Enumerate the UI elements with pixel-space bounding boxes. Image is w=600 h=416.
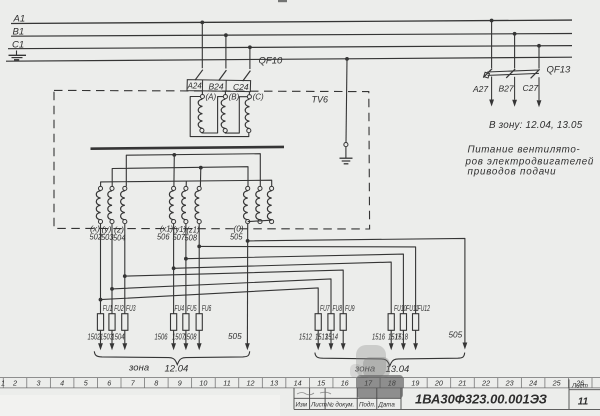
arrow 505 right out <box>463 343 468 350</box>
wire net 505 branch to 13.04 <box>248 238 465 343</box>
svg-text:А27: А27 <box>472 84 488 94</box>
node neutral terminal <box>344 143 348 147</box>
svg-text:Изм: Изм <box>296 401 308 408</box>
secondary winding y <box>108 186 114 223</box>
wire QF10 A to primary <box>201 91 203 94</box>
svg-text:QF10: QF10 <box>259 56 283 67</box>
svg-text:1518: 1518 <box>395 332 408 341</box>
svg-text:Лист: Лист <box>310 401 327 408</box>
svg-text:зона: зона <box>128 363 149 374</box>
wire rail2 tap to (z1) <box>199 166 203 187</box>
svg-text:1516: 1516 <box>372 332 385 341</box>
svg-text:22: 22 <box>481 378 490 387</box>
scan mark top center <box>278 0 287 2</box>
svg-text:1504: 1504 <box>112 332 125 341</box>
secondary winding y1 <box>182 186 188 223</box>
svg-text:ТV6: ТV6 <box>312 95 329 105</box>
secondary winding z <box>121 186 127 223</box>
svg-text:А24: А24 <box>187 82 203 91</box>
wire net 504 branch to FU9 <box>125 270 343 314</box>
arrow FU11 out <box>401 343 406 350</box>
label winding y 503 <box>101 225 114 242</box>
svg-text:приводов подачи: приводов подачи <box>468 167 557 178</box>
svg-text:1502: 1502 <box>88 332 101 341</box>
wire rail3 tap to (y1) <box>185 182 187 187</box>
svg-text:Питание вентилято-: Питание вентилято- <box>468 144 581 155</box>
bus C1 <box>8 40 572 51</box>
arrow FU5 out <box>184 343 189 350</box>
svg-text:(А): (А) <box>206 92 217 101</box>
wire N tap <box>345 57 349 143</box>
fuse FU12 <box>395 304 430 344</box>
svg-text:FU4: FU4 <box>175 304 185 313</box>
primary winding A <box>198 99 204 132</box>
arrow 505 left out <box>245 343 250 350</box>
wire 502 column <box>99 224 103 314</box>
svg-text:505: 505 <box>228 332 242 341</box>
svg-text:505: 505 <box>230 233 243 242</box>
fuse FU1 <box>88 304 113 344</box>
arrow QF13 C out <box>537 100 542 107</box>
svg-text:504: 504 <box>113 234 126 243</box>
svg-text:FU12: FU12 <box>418 304 431 313</box>
wire 503 column <box>110 224 114 314</box>
svg-text:12: 12 <box>247 378 255 387</box>
svg-text:11: 11 <box>578 397 589 408</box>
svg-text:508: 508 <box>185 234 198 243</box>
wire secondary rail 3 <box>101 180 272 186</box>
wire 504 column <box>123 224 127 314</box>
title block <box>294 379 600 409</box>
label winding z 504 <box>113 226 126 243</box>
primary winding C <box>245 99 251 132</box>
wire secondary rail 1 <box>126 154 260 187</box>
svg-text:21: 21 <box>457 378 466 387</box>
arrow FU1 out <box>98 343 103 350</box>
svg-text:505: 505 <box>449 331 463 340</box>
primary winding B <box>221 99 227 132</box>
svg-text:20: 20 <box>434 378 443 387</box>
wire delta link B-bottom to C-top <box>225 97 247 133</box>
wire delta link A-bottom to B-top <box>202 97 223 133</box>
arrow QF13 B out <box>512 100 517 107</box>
svg-text:6: 6 <box>107 378 111 387</box>
label winding y1 507 <box>173 225 187 242</box>
wire rail1 tap to (x1) <box>172 153 176 186</box>
wire delta link A-top to C-bottom <box>190 97 249 137</box>
ruler strip <box>0 378 600 388</box>
svg-text:FU7: FU7 <box>320 304 330 313</box>
label TV6 <box>312 95 329 105</box>
breaker QF10 <box>187 70 251 92</box>
svg-text:12.04: 12.04 <box>165 364 189 375</box>
secondary winding x1 <box>169 186 175 223</box>
svg-text:С27: С27 <box>523 83 539 93</box>
wire QF10 C to primary <box>248 92 250 95</box>
bus A1 <box>11 14 572 25</box>
svg-text:Подп.: Подп. <box>359 401 375 408</box>
ground (left bus earth) <box>9 51 27 60</box>
wire 508 column <box>197 224 201 314</box>
label zone 12.04 <box>128 363 188 375</box>
svg-text:Дата: Дата <box>378 401 396 408</box>
fuse FU8 <box>315 304 342 344</box>
fuse FU11 <box>388 304 419 344</box>
wire QF13 pole B from bus B1 <box>513 32 517 68</box>
svg-text:10: 10 <box>199 378 207 387</box>
svg-text:2: 2 <box>12 378 17 387</box>
svg-text:FU10: FU10 <box>394 304 407 313</box>
fuse FU10 <box>372 304 407 344</box>
transformer core bar <box>91 147 285 149</box>
arrow FU2 out <box>110 343 115 350</box>
wire QF10 pole B from bus B1 <box>224 33 228 68</box>
transformer TV6 dashed boundary <box>54 90 370 229</box>
svg-text:В зону: 12.04, 13.05: В зону: 12.04, 13.05 <box>489 120 583 131</box>
label winding 0 505 <box>230 225 244 242</box>
svg-text:11: 11 <box>223 378 230 387</box>
wire QF10 pole A from bus A1 <box>200 21 204 69</box>
svg-text:14: 14 <box>294 378 302 387</box>
svg-text:1ВА30Ф323.00.001ЭЗ: 1ВА30Ф323.00.001ЭЗ <box>415 393 547 407</box>
svg-text:FU1: FU1 <box>103 304 113 313</box>
svg-text:В24: В24 <box>209 81 224 91</box>
wire net 507 branch to FU11 <box>186 254 404 314</box>
arrow FU7 out <box>316 343 321 350</box>
wire QF10 pole C from bus C1 <box>248 45 252 69</box>
svg-text:1: 1 <box>1 378 5 387</box>
fuse FU7 <box>299 304 330 344</box>
secondary winding x <box>96 186 102 223</box>
wire 507 column <box>184 224 188 314</box>
wire net 502 branch to FU7 <box>101 288 319 314</box>
svg-text:16: 16 <box>341 378 349 387</box>
fuse FU4 <box>155 304 185 344</box>
arrow FU3 out <box>122 343 127 350</box>
svg-text:3: 3 <box>37 378 41 387</box>
wire 505 common join <box>248 220 272 221</box>
svg-text:(С): (С) <box>253 93 264 102</box>
svg-text:FU3: FU3 <box>126 304 136 313</box>
svg-text:В1: В1 <box>13 27 25 38</box>
fuse FU9 <box>325 304 355 344</box>
bus N <box>6 57 572 61</box>
secondary winding z1 <box>195 186 201 223</box>
svg-text:FU8: FU8 <box>333 304 343 313</box>
fuse FU6 <box>184 304 212 344</box>
scan scribble in title block <box>297 392 331 395</box>
svg-text:FU6: FU6 <box>202 304 212 313</box>
wire 505 column <box>246 224 250 344</box>
arrow QF13 A out <box>489 100 494 107</box>
wire net 508 branch to FU12 <box>199 246 415 313</box>
arrow FU4 out <box>171 343 176 350</box>
svg-text:4: 4 <box>60 378 64 387</box>
wire net 506 branch to FU10 <box>174 262 392 314</box>
wire QF13 pole A from bus A1 <box>490 19 494 68</box>
svg-text:А1: А1 <box>13 14 26 25</box>
node (B) terminal <box>223 93 239 102</box>
svg-text:(В): (В) <box>229 93 240 102</box>
brace zone 13.04 <box>315 353 465 366</box>
svg-text:15: 15 <box>317 378 326 387</box>
svg-text:FU5: FU5 <box>187 304 197 313</box>
svg-text:19: 19 <box>411 378 419 387</box>
breaker QF13 <box>472 69 540 101</box>
node (C) terminal <box>247 93 264 102</box>
wire QF13 pole C from bus C1 <box>537 44 541 69</box>
wire net 503 branch to FU8 <box>112 279 331 314</box>
fuse FU3 <box>112 304 136 344</box>
arrow FU12 out <box>413 343 418 350</box>
svg-text:1508: 1508 <box>184 332 197 341</box>
arrow FU9 out <box>341 343 346 350</box>
secondary winding o3 <box>267 186 273 223</box>
arrow FU6 out <box>197 343 202 350</box>
svg-text:FU9: FU9 <box>345 304 355 313</box>
svg-text:Лист: Лист <box>571 382 588 389</box>
label winding x1 506 <box>157 225 173 242</box>
arrow FU10 out <box>389 343 394 350</box>
label winding z1 508 <box>185 226 200 243</box>
wire secondary rail 2 <box>112 167 248 187</box>
svg-text:24: 24 <box>528 378 537 387</box>
wire QF10 B to primary <box>224 91 226 94</box>
label QF10 <box>259 56 283 67</box>
ground (TV6 neutral earth) <box>340 147 353 164</box>
svg-text:FU2: FU2 <box>114 304 124 313</box>
wire 506 column <box>172 224 176 314</box>
svg-text:1506: 1506 <box>155 332 168 341</box>
label zone 13.04 <box>354 364 409 376</box>
secondary winding o1 <box>244 186 250 223</box>
svg-text:1512: 1512 <box>299 332 312 341</box>
fuse FU5 <box>172 304 197 344</box>
svg-text:8: 8 <box>154 378 158 387</box>
svg-text:25: 25 <box>552 378 562 387</box>
arrow FU8 out <box>329 343 334 350</box>
svg-text:506: 506 <box>157 233 170 242</box>
node (A) terminal <box>200 92 216 101</box>
label winding x 502 <box>90 225 103 242</box>
svg-text:QF13: QF13 <box>547 65 571 76</box>
svg-text:№ докум.: № докум. <box>327 401 354 408</box>
svg-text:1514: 1514 <box>325 332 338 341</box>
svg-text:23: 23 <box>505 378 514 387</box>
svg-text:С24: С24 <box>233 82 249 92</box>
fuse FU2 <box>100 304 124 344</box>
svg-text:9: 9 <box>178 378 182 387</box>
svg-text:С1: С1 <box>12 40 24 51</box>
svg-text:13: 13 <box>270 378 278 387</box>
brace zone 12.04 <box>94 351 249 364</box>
svg-text:В27: В27 <box>499 84 514 94</box>
bus B1 <box>11 27 572 38</box>
label QF13 <box>547 65 571 76</box>
scan smudge <box>350 345 403 398</box>
secondary winding o2 <box>256 186 262 223</box>
